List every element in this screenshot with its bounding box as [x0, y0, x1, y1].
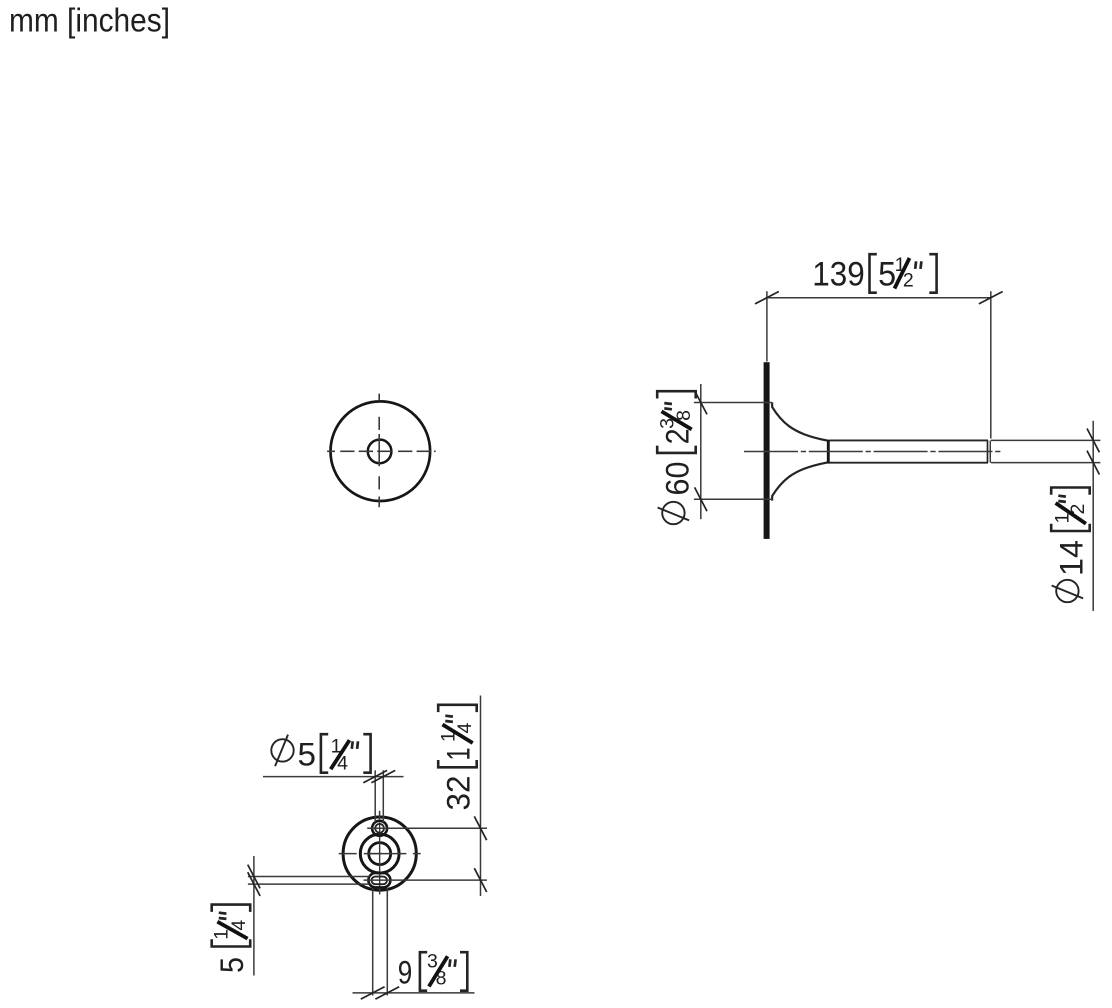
extension line 9 right: [386, 888, 388, 996]
label 32 [1 1/4"] rotated: [438, 705, 477, 811]
screw hole inner circle: [375, 824, 384, 833]
flange center ring: [360, 834, 399, 873]
spout tube top edge: [830, 439, 989, 441]
tick left of 139: [755, 292, 779, 304]
front view vertical centerline: [378, 394, 380, 508]
front view inner circle (spout hole): [368, 440, 392, 464]
tick top of 5: [248, 865, 260, 889]
centerline cross tick at tube end: [989, 446, 991, 457]
dimension line dia14 (vertical): [1092, 421, 1094, 611]
extension line dia14 top: [991, 439, 1100, 441]
svg-text:mm [inches]: mm [inches]: [9, 2, 170, 39]
tick right of 139: [979, 292, 1003, 304]
dia5 extension line left: [374, 770, 376, 822]
dimension line 32 (vertical): [480, 696, 482, 897]
tick top of 32: [474, 816, 486, 840]
front view outer circle (escutcheon): [331, 401, 431, 501]
label 5 [1/4"] rotated: [211, 905, 251, 973]
svg-text:5: 5: [298, 737, 317, 773]
dia5 extension line right: [382, 770, 384, 822]
dimension line 9 (horizontal): [353, 992, 475, 994]
tick right of 9: [375, 987, 399, 999]
svg-text:60: 60: [660, 462, 696, 496]
svg-text:2: 2: [903, 270, 914, 292]
svg-text:1: 1: [441, 748, 477, 761]
extension line 5 top (slot inner top): [248, 876, 370, 878]
tick bottom of dia60: [695, 487, 707, 511]
dimension line 139: [767, 297, 991, 299]
extension line 32 bottom (slot center): [364, 879, 488, 881]
spout flare lower outline: [772, 462, 827, 500]
extension line 32 top (screw center): [367, 827, 487, 829]
tick top of dia60: [695, 391, 707, 415]
tick top of dia14: [1087, 429, 1099, 453]
label 139 [5 1/2"]: [812, 254, 936, 294]
extension line left (wall): [766, 291, 768, 361]
extension line 5 bottom (slot inner bottom): [248, 883, 370, 885]
spout tube end line: [987, 440, 989, 462]
label dia 14 [1/2"] rotated: [1051, 488, 1090, 603]
slot outer obround: [368, 873, 390, 887]
spout centerline (dash-dot): [744, 451, 1003, 453]
svg-text:5: 5: [214, 957, 250, 973]
flange center cross: [369, 853, 390, 855]
spout tube end second line: [989, 440, 991, 462]
svg-text:9: 9: [398, 955, 413, 991]
spout neck joint line: [827, 440, 830, 464]
flange vertical centerline: [379, 811, 381, 895]
screw hole outer circle: [372, 821, 387, 836]
svg-text:139: 139: [812, 256, 865, 294]
tick left of dia5: [363, 770, 387, 782]
extension line dia60 top: [694, 402, 772, 404]
spout flare upper outline: [772, 402, 827, 440]
tick left of 9: [361, 987, 385, 999]
dimension line dia60 (vertical): [700, 384, 702, 519]
tick bottom of 32: [474, 868, 486, 892]
svg-text:14: 14: [1054, 540, 1090, 576]
extension line dia60 bottom: [694, 498, 772, 500]
tick bottom of 5: [248, 872, 260, 896]
tick right of dia5: [371, 770, 395, 782]
flange center hole: [369, 843, 391, 865]
dia5 leader line: [263, 776, 404, 778]
spout tube bottom edge: [830, 462, 989, 464]
units note "mm [inches]": [9, 2, 170, 39]
label 9 [3/8"]: [398, 951, 468, 991]
front view horizontal centerline: [327, 450, 436, 452]
wall plate (thick vertical bar): [764, 362, 770, 539]
flange outer circle: [343, 817, 416, 890]
svg-text:2: 2: [660, 428, 696, 444]
svg-text:32: 32: [441, 776, 477, 811]
flange horizontal centerline: [339, 853, 421, 855]
extension line 9 left: [372, 888, 374, 996]
extension line right (tube end): [990, 291, 992, 438]
label dia 60 [2 3/8"] rotated: [657, 391, 696, 524]
extension line dia14 bottom: [991, 462, 1100, 464]
dimension line 5 (vertical, left): [253, 856, 255, 976]
tick bottom of dia14: [1087, 451, 1099, 475]
slot inner obround: [372, 877, 388, 885]
label dia 5 [1/4"]: [271, 734, 370, 774]
